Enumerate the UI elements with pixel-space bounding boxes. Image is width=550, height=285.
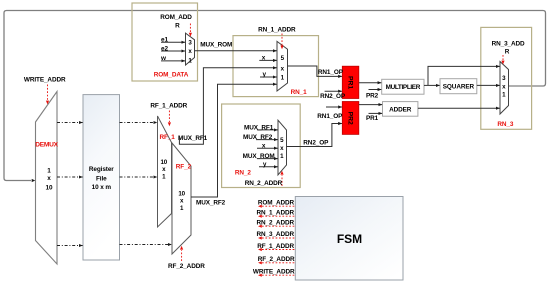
svg-text:RF_2_ADDR: RF_2_ADDR xyxy=(168,263,205,270)
svg-text:w: w xyxy=(160,55,166,62)
svg-text:ROM_DATA: ROM_DATA xyxy=(154,72,189,79)
svg-text:e2: e2 xyxy=(161,45,168,52)
svg-text:RN_3_ADDR: RN_3_ADDR xyxy=(257,231,295,238)
svg-text:Register: Register xyxy=(89,166,114,173)
svg-text:MUX_RF2: MUX_RF2 xyxy=(243,134,273,141)
svg-text:ROM_ADD: ROM_ADD xyxy=(160,14,192,21)
svg-text:DEMUX: DEMUX xyxy=(35,142,58,149)
svg-text:RN2_OP: RN2_OP xyxy=(303,140,329,147)
svg-text:RN2_OP: RN2_OP xyxy=(320,93,346,100)
svg-text:x: x xyxy=(47,175,51,182)
svg-text:ADDER: ADDER xyxy=(389,106,412,113)
svg-text:File: File xyxy=(96,176,107,183)
svg-text:MUX_ROM: MUX_ROM xyxy=(243,153,275,160)
svg-text:FSM: FSM xyxy=(337,232,362,246)
svg-text:RN_1: RN_1 xyxy=(291,89,307,96)
svg-text:WRITE_ADDR: WRITE_ADDR xyxy=(24,76,66,83)
svg-text:MULTIPLIER: MULTIPLIER xyxy=(386,84,421,91)
svg-text:R: R xyxy=(175,23,180,30)
svg-text:PR1: PR1 xyxy=(366,115,379,122)
svg-text:RN_3_ADD: RN_3_ADD xyxy=(492,41,525,48)
svg-text:x: x xyxy=(262,55,266,62)
svg-text:y: y xyxy=(263,161,267,168)
svg-text:PR2: PR2 xyxy=(347,112,354,125)
svg-text:RN1_OP: RN1_OP xyxy=(317,113,343,120)
svg-text:RN_1_ADDR: RN_1_ADDR xyxy=(258,26,296,33)
svg-text:10 x m: 10 x m xyxy=(92,184,112,191)
svg-text:RN_2_ADDR: RN_2_ADDR xyxy=(245,180,283,187)
svg-text:RN_1_ADDR: RN_1_ADDR xyxy=(257,209,295,216)
svg-text:e1: e1 xyxy=(161,37,168,44)
svg-text:RF_2_ADDR: RF_2_ADDR xyxy=(258,256,295,263)
svg-text:MUX_RF1: MUX_RF1 xyxy=(178,135,208,142)
svg-text:MUX_ROM: MUX_ROM xyxy=(200,42,232,49)
svg-text:y: y xyxy=(263,71,267,78)
svg-text:10: 10 xyxy=(161,159,168,166)
svg-text:WRITE_ADDR: WRITE_ADDR xyxy=(253,269,295,276)
svg-text:1: 1 xyxy=(47,167,51,174)
svg-text:RF_1_ADDR: RF_1_ADDR xyxy=(150,102,187,109)
svg-text:RN_2_ADDR: RN_2_ADDR xyxy=(257,219,295,226)
svg-text:ROM_ADDR: ROM_ADDR xyxy=(258,199,295,206)
svg-text:x: x xyxy=(262,142,266,149)
svg-text:RF_2: RF_2 xyxy=(176,164,192,171)
svg-text:MUX_RF1: MUX_RF1 xyxy=(244,124,274,131)
svg-text:RN1_OP: RN1_OP xyxy=(318,69,344,76)
svg-text:SQUARER: SQUARER xyxy=(443,84,475,91)
svg-text:RF_1: RF_1 xyxy=(160,134,176,141)
svg-text:RN_3: RN_3 xyxy=(497,121,513,128)
svg-text:RF_1_ADDR: RF_1_ADDR xyxy=(257,243,294,250)
svg-text:RN_2: RN_2 xyxy=(235,170,251,177)
svg-text:MUX_RF2: MUX_RF2 xyxy=(196,199,226,206)
svg-text:PR1: PR1 xyxy=(347,76,354,89)
svg-text:R: R xyxy=(505,49,510,56)
svg-text:10: 10 xyxy=(178,190,185,197)
svg-text:10: 10 xyxy=(46,184,53,191)
svg-text:PR2: PR2 xyxy=(366,93,379,100)
